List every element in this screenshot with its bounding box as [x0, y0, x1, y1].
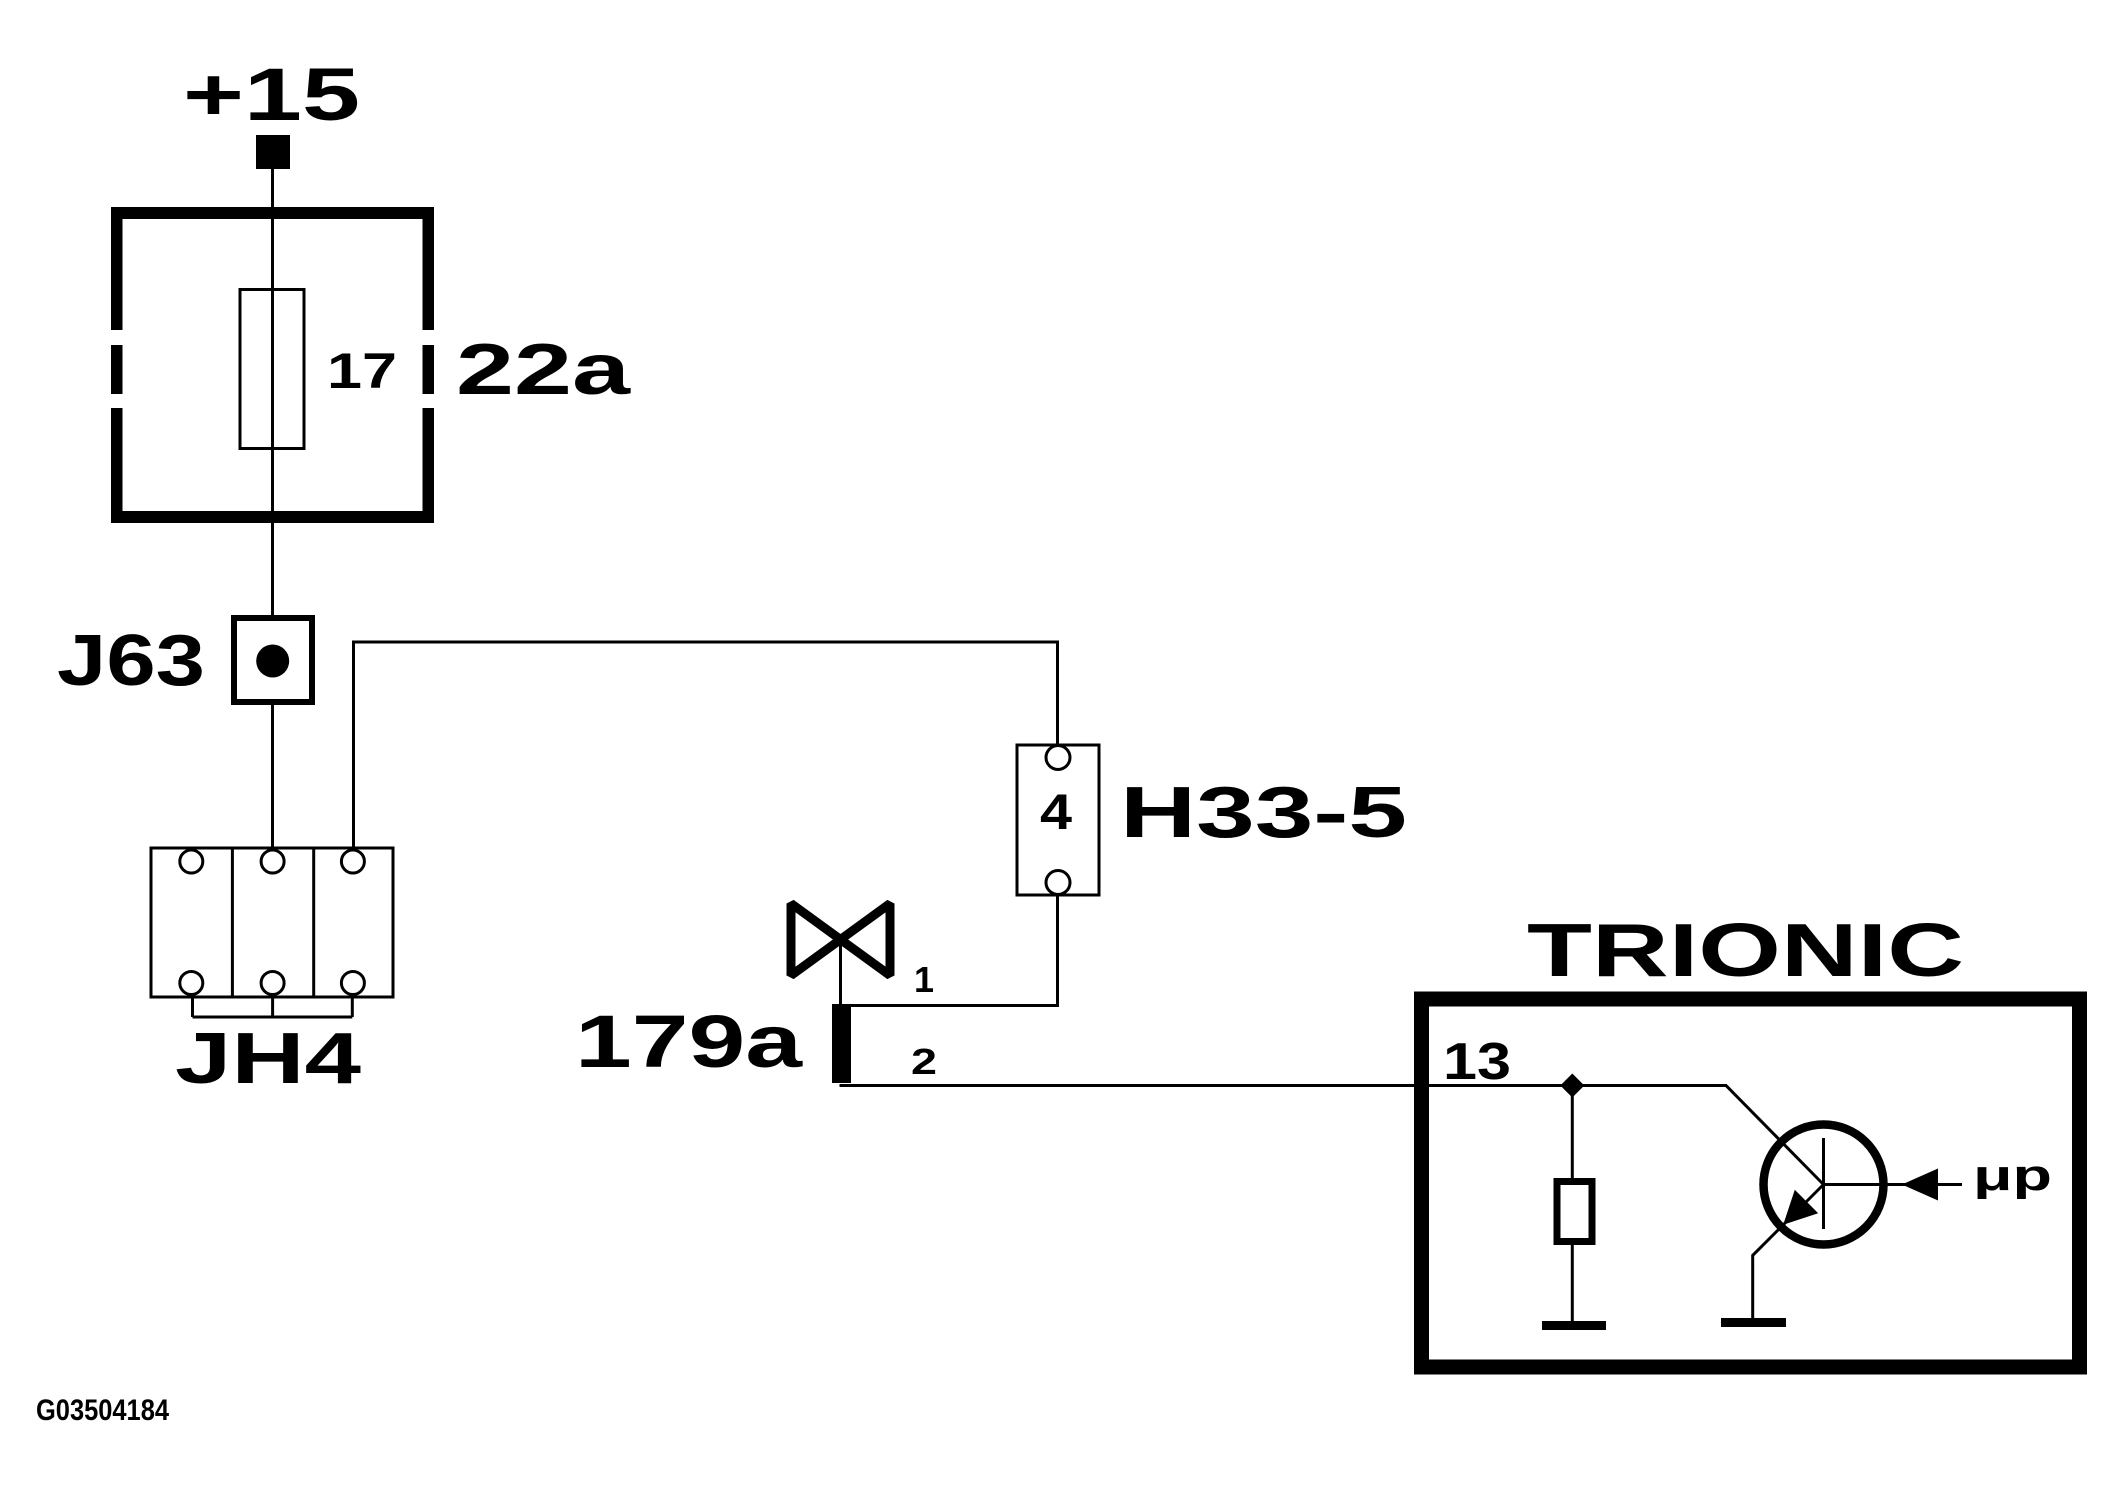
- ground (resistor side): [1542, 1321, 1606, 1330]
- emitter wire to ground: [1753, 1185, 1824, 1323]
- wire node down to resistor: [1571, 1086, 1574, 1179]
- fuse 17 element: [240, 290, 304, 449]
- junction node diamond: [1560, 1074, 1584, 1098]
- splice J63 dot: [256, 645, 289, 678]
- connector JH4 bottom bracket: [193, 997, 353, 1017]
- transistor body circle: [1764, 1125, 1884, 1245]
- fuse box 22a (dashed enclosure): [111, 207, 434, 523]
- svg-text:4: 4: [1040, 784, 1072, 840]
- svg-text:17: 17: [327, 343, 397, 399]
- solenoid valve symbol: [791, 904, 890, 976]
- valve stem wire: [839, 940, 842, 1006]
- svg-text:22a: 22a: [456, 330, 631, 410]
- svg-text:J63: J63: [57, 621, 205, 701]
- wire J63 to JH4 pin 2: [271, 705, 274, 848]
- svg-text:+15: +15: [183, 53, 360, 136]
- svg-text:H33-5: H33-5: [1120, 773, 1407, 853]
- svg-text:13: 13: [1443, 1033, 1511, 1091]
- connector 179a pin bar: [832, 1004, 851, 1083]
- power terminal square: [256, 135, 290, 169]
- svg-text:JH4: JH4: [175, 1019, 361, 1099]
- svg-text:TRIONIC: TRIONIC: [1527, 908, 1964, 992]
- wire node to transistor collector: [1572, 1086, 1823, 1185]
- connector H33-5 body: [1017, 745, 1099, 895]
- svg-text:μp: μp: [1973, 1151, 2052, 1200]
- svg-text:1: 1: [914, 959, 934, 1000]
- transistor emitter arrowhead: [1783, 1190, 1818, 1225]
- wire resistor to ground: [1571, 1245, 1574, 1322]
- svg-text:2: 2: [911, 1041, 937, 1082]
- svg-text:179a: 179a: [575, 1000, 803, 1083]
- ECU box TRIONIC: [1422, 999, 2080, 1367]
- wire JH4 pin 3 up and right to H33-5: [354, 642, 1058, 848]
- splice J63 box: [234, 618, 312, 702]
- svg-text:G03504184: G03504184: [36, 1394, 169, 1427]
- transistor base bar: [1822, 1138, 1825, 1229]
- ground (emitter side): [1721, 1318, 1786, 1327]
- connector H33-5 pin circles: [1046, 746, 1070, 895]
- wire valve pin 2 to TRIONIC pin 13: [840, 1084, 1573, 1087]
- wire +15 terminal down through fuse to J63: [271, 169, 274, 615]
- base arrowhead: [1902, 1169, 1938, 1201]
- connector JH4 body: [151, 848, 393, 997]
- base wire from microprocessor: [1824, 1183, 1963, 1186]
- resistor: [1557, 1182, 1592, 1242]
- connector JH4 pin circles: [180, 850, 365, 995]
- wire H33-5 down and left to valve pin 1: [851, 895, 1058, 1006]
